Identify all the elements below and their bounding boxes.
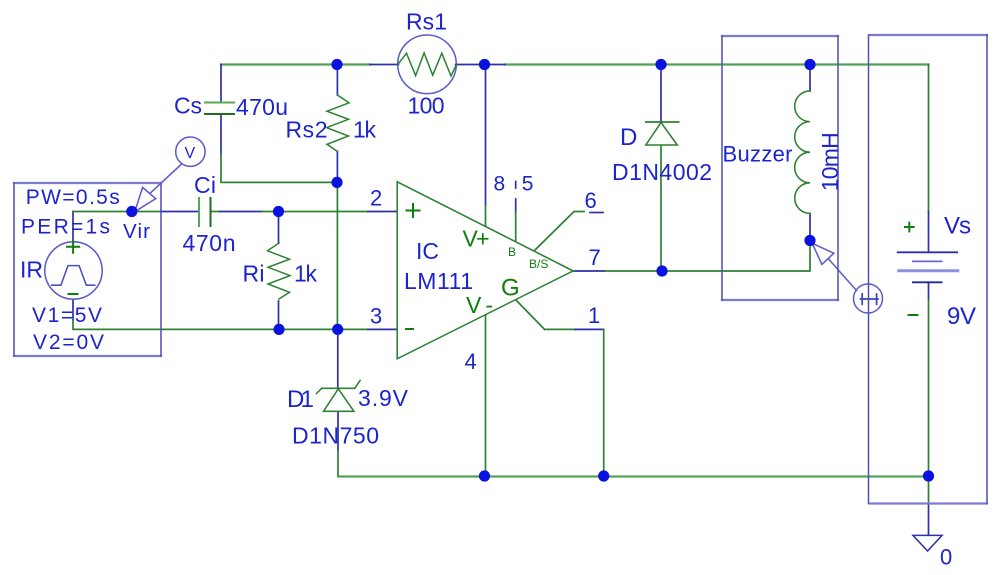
resistor Ri zigzag — [268, 243, 291, 299]
probe H arrow funnel — [812, 243, 834, 264]
wire pin8 drop — [485, 65, 487, 206]
wire Cs branch lower — [220, 115, 222, 154]
svg-text:Vs: Vs — [944, 213, 971, 240]
svg-text:8: 8 — [494, 173, 506, 196]
pulse source IR circle — [45, 242, 102, 299]
wire Rs1 right stub — [456, 64, 506, 66]
svg-text:Cs: Cs — [174, 93, 202, 119]
svg-text:3: 3 — [370, 304, 382, 329]
svg-text:IR: IR — [20, 257, 43, 283]
wire buzzer top lead — [809, 65, 811, 92]
svg-text:LM111: LM111 — [404, 268, 473, 294]
wire IR plus lead — [72, 212, 74, 242]
svg-text:IC: IC — [416, 238, 439, 264]
probe V arrow funnel — [135, 187, 156, 211]
svg-text:4: 4 — [465, 349, 477, 374]
svg-text:470u: 470u — [236, 94, 288, 120]
box IR source — [14, 183, 161, 356]
capacitor Ci plates — [198, 198, 200, 226]
node dot Vir — [126, 206, 137, 217]
svg-text:D1N4002: D1N4002 — [612, 159, 712, 185]
wire pin5 tick — [515, 182, 517, 189]
wire top rail green — [221, 63, 929, 65]
node dot pin7 net — [656, 265, 667, 276]
svg-text:Rs2: Rs2 — [286, 117, 328, 143]
svg-text:9V: 9V — [947, 303, 976, 330]
svg-text:2: 2 — [370, 186, 382, 211]
wire pin1 drop — [603, 329, 605, 476]
resistor Rs1 zigzag — [398, 53, 457, 76]
svg-text:D1N750: D1N750 — [292, 423, 379, 449]
wire pin1 diagonal — [516, 300, 545, 329]
svg-text:Rs1: Rs1 — [406, 9, 447, 35]
svg-text:1: 1 — [588, 303, 600, 328]
node dot Ri bottom — [273, 324, 284, 335]
svg-text:6: 6 — [585, 188, 597, 213]
wire Ci to pin2 — [211, 211, 220, 213]
probe H circle — [854, 284, 883, 313]
svg-text:PER=1s: PER=1s — [21, 216, 110, 239]
wire Rs1 left stub — [370, 64, 399, 66]
zener D1 symbol — [316, 381, 360, 394]
probe H symbol I-beam — [861, 294, 879, 304]
svg-text:1k: 1k — [294, 261, 318, 287]
battery Vs minus — [909, 314, 918, 316]
node dot top Rs2 — [331, 59, 342, 70]
svg-text:G: G — [501, 274, 520, 301]
resistor Rs1 circle — [398, 35, 457, 94]
svg-text:5: 5 — [522, 173, 534, 196]
wire pin5 stub — [515, 199, 517, 212]
diode D symbol — [646, 121, 679, 123]
pulse source IR minus — [69, 293, 78, 295]
svg-text:D1: D1 — [287, 386, 314, 413]
wire pin7 net — [605, 241, 810, 272]
wire pin6 diagonal — [535, 212, 585, 251]
op-amp plus input mark — [407, 204, 420, 217]
probe V stick — [144, 164, 181, 199]
probe V circle — [176, 137, 205, 166]
svg-text:470n: 470n — [183, 230, 236, 256]
svg-text:D: D — [620, 124, 637, 151]
node dot top pin8 — [479, 59, 490, 70]
wire Rs2 stubs — [336, 65, 338, 183]
wire pin6 dash — [590, 212, 603, 214]
node dot zener top — [332, 324, 343, 335]
resistor Rs2 zigzag — [327, 95, 350, 151]
wire pin4 drop — [485, 314, 487, 476]
capacitor Cs plates — [205, 102, 234, 104]
svg-text:1k: 1k — [353, 117, 377, 143]
node dot Ri top — [273, 206, 284, 217]
svg-text:B: B — [508, 245, 516, 259]
node dot buzzer bottom — [804, 235, 815, 246]
wire Rs2 bottom to pin3 net — [336, 182, 338, 329]
node dot top buzzer — [804, 59, 815, 70]
wire diode D bottom lead — [660, 145, 662, 271]
wire zener bottom lead — [337, 412, 339, 451]
wire Vir horizontal — [73, 211, 161, 213]
pulse source IR plus — [67, 241, 79, 253]
wire Vs minus to bottom rail — [928, 282, 930, 300]
wire bottom rail — [338, 475, 929, 477]
wire ground lead — [928, 504, 930, 536]
op-amp U1 triangle — [397, 182, 573, 359]
wire pin7 stub — [573, 270, 605, 272]
wire Ri stubs — [278, 212, 280, 330]
node dot bottom Vs — [923, 470, 934, 481]
svg-text:V+: V+ — [463, 226, 490, 252]
wire buzzer bottom lead — [809, 213, 811, 240]
node dot bottom pin4 — [479, 470, 490, 481]
op-amp minus input mark — [406, 328, 413, 330]
wire Vs plus drop — [928, 65, 930, 212]
wire diode D top lead — [660, 65, 662, 123]
svg-text:Vir: Vir — [123, 220, 150, 243]
ground symbol — [913, 535, 942, 551]
wire IR minus lead — [72, 300, 74, 320]
svg-text:7: 7 — [589, 245, 601, 270]
svg-text:Ri: Ri — [243, 261, 265, 287]
node dot top D — [655, 59, 666, 70]
battery Vs plates — [898, 251, 958, 253]
wire zener top lead — [337, 329, 339, 387]
box Vs battery — [870, 35, 987, 504]
probe H stick — [829, 260, 857, 291]
svg-text:3.9V: 3.9V — [358, 385, 409, 411]
svg-text:V: V — [185, 145, 196, 162]
pulse source IR waveform — [52, 266, 95, 286]
svg-text:10mH: 10mH — [817, 132, 843, 191]
wire Cs branch upper — [220, 65, 222, 103]
wire pin1 horizontal — [545, 328, 575, 330]
svg-text:V2=0V: V2=0V — [33, 331, 104, 354]
svg-text:Buzzer: Buzzer — [723, 142, 793, 167]
wire pin3 rail — [73, 319, 368, 329]
inductor Buzzer coil — [795, 91, 810, 213]
box Buzzer — [722, 36, 838, 300]
node dot Rs2 bottom — [331, 177, 342, 188]
svg-text:V1=5V: V1=5V — [32, 304, 102, 327]
battery Vs plus — [905, 223, 914, 232]
node dot bottom pin1 — [598, 470, 609, 481]
svg-text:100: 100 — [408, 93, 445, 119]
svg-text:B/S: B/S — [529, 257, 548, 271]
svg-text:Ci: Ci — [194, 172, 216, 198]
svg-text:V-: V- — [466, 292, 493, 318]
svg-text:0: 0 — [940, 545, 952, 570]
